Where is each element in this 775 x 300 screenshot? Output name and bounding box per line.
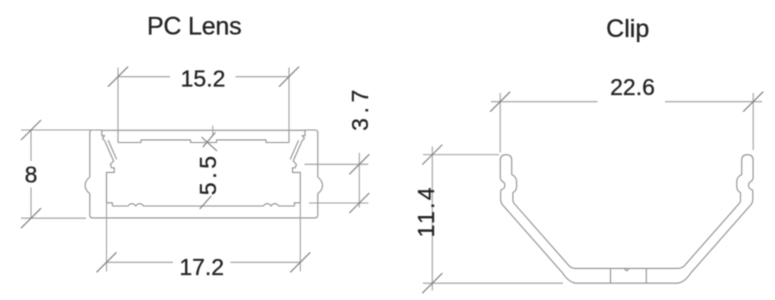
svg-text:5.5: 5.5 (195, 152, 221, 195)
svg-text:22.6: 22.6 (610, 74, 655, 100)
svg-text:17.2: 17.2 (179, 254, 224, 280)
svg-text:3.7: 3.7 (347, 85, 373, 131)
svg-text:PC Lens: PC Lens (147, 12, 242, 40)
svg-text:Clip: Clip (606, 15, 649, 43)
svg-text:8: 8 (25, 161, 38, 187)
svg-text:11.4: 11.4 (413, 185, 439, 237)
svg-text:15.2: 15.2 (181, 66, 226, 92)
